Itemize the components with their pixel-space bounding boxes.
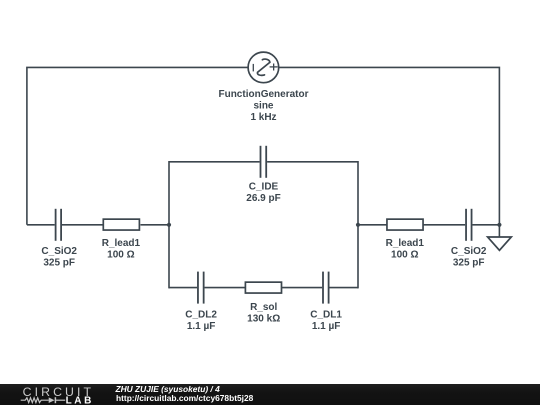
svg-text:325 pF: 325 pF <box>453 257 485 268</box>
svg-text:C_IDE: C_IDE <box>249 182 279 193</box>
svg-text:1.1 µF: 1.1 µF <box>312 321 341 332</box>
svg-text:1.1 µF: 1.1 µF <box>187 321 216 332</box>
svg-text:C_SiO2: C_SiO2 <box>451 246 487 257</box>
svg-text:26.9 pF: 26.9 pF <box>246 193 280 204</box>
svg-text:R_sol: R_sol <box>250 302 277 313</box>
svg-text:R_lead1: R_lead1 <box>102 238 141 249</box>
svg-text:FunctionGenerator: FunctionGenerator <box>218 89 308 100</box>
svg-text:C_SiO2: C_SiO2 <box>41 246 77 257</box>
svg-text:sine: sine <box>253 101 273 112</box>
svg-text:100 Ω: 100 Ω <box>391 249 418 260</box>
svg-text:130 kΩ: 130 kΩ <box>247 314 280 325</box>
svg-text:C_DL1: C_DL1 <box>310 309 342 320</box>
svg-text:LAB: LAB <box>66 395 94 405</box>
svg-text:100 Ω: 100 Ω <box>107 249 134 260</box>
svg-text:C_DL2: C_DL2 <box>185 309 217 320</box>
svg-text:325 pF: 325 pF <box>43 257 75 268</box>
svg-text:R_lead1: R_lead1 <box>386 238 425 249</box>
svg-text:1 kHz: 1 kHz <box>250 112 276 123</box>
